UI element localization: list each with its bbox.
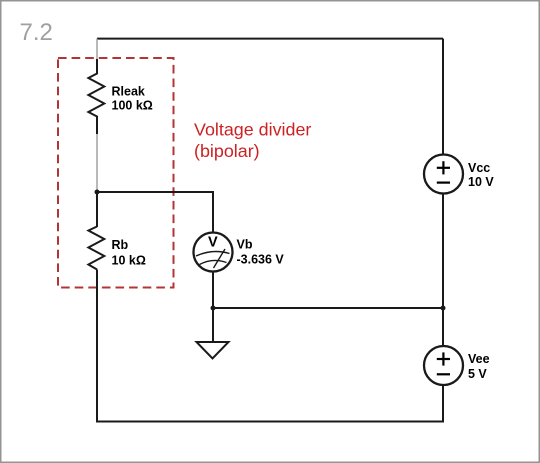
wire: node B to voltmeter (97, 192, 213, 233)
resistor Rb (88, 227, 104, 270)
annotation label: Voltage divider (bipolar) (194, 120, 311, 162)
wire: top corner down to Rleak (gray net) (96, 39, 98, 60)
annotation box: voltage divider (red dashed) (58, 58, 174, 288)
wire: node D to Vee (442, 308, 444, 346)
wire: top rail to Vcc (442, 39, 444, 155)
svg-text:100 kΩ: 100 kΩ (112, 99, 153, 113)
svg-text:(bipolar): (bipolar) (194, 141, 260, 161)
label Vcc 10 V (468, 161, 494, 189)
label Rb 10 kΩ (112, 238, 146, 268)
wire: ground node to right rail (213, 307, 443, 309)
svg-text:Rleak: Rleak (112, 84, 145, 98)
wire: node B to Rb (96, 192, 98, 227)
wire: node C down to ground symbol (212, 308, 214, 342)
svg-text:V: V (208, 235, 218, 251)
svg-text:Voltage divider: Voltage divider (194, 120, 311, 140)
wire bottom rail (97, 421, 443, 423)
svg-text:10 V: 10 V (468, 175, 494, 189)
ground (197, 342, 229, 359)
voltmeter Vb (194, 233, 233, 272)
wire: Rb bottom to bottom rail (96, 270, 98, 423)
svg-text:Vcc: Vcc (468, 161, 490, 175)
label Vee 5 V (468, 352, 490, 381)
wire: Rleak bottom to node B (gray net) (96, 134, 98, 192)
wire top: node A to Vcc top (97, 38, 443, 40)
node D junction dot (441, 306, 446, 311)
svg-text:5 V: 5 V (468, 367, 487, 381)
node B junction dot (95, 190, 100, 195)
label Vb -3.636 V (237, 237, 285, 266)
wire: Vcc to node D (442, 194, 444, 309)
resistor Rleak (88, 59, 104, 134)
svg-text:Vb: Vb (237, 237, 253, 251)
label Rleak 100 kΩ (112, 84, 153, 112)
voltage source Vee (424, 346, 463, 385)
svg-text:7.2: 7.2 (20, 19, 53, 46)
wire: Vee to bottom rail (442, 385, 444, 423)
svg-text:Vee: Vee (468, 352, 490, 366)
wire: voltmeter to ground node (212, 272, 214, 309)
voltage source Vcc (424, 155, 463, 194)
node C junction dot (ground node) (211, 306, 216, 311)
svg-text:Rb: Rb (112, 238, 129, 252)
svg-text:10 kΩ: 10 kΩ (112, 254, 146, 268)
svg-text:-3.636 V: -3.636 V (237, 252, 285, 266)
